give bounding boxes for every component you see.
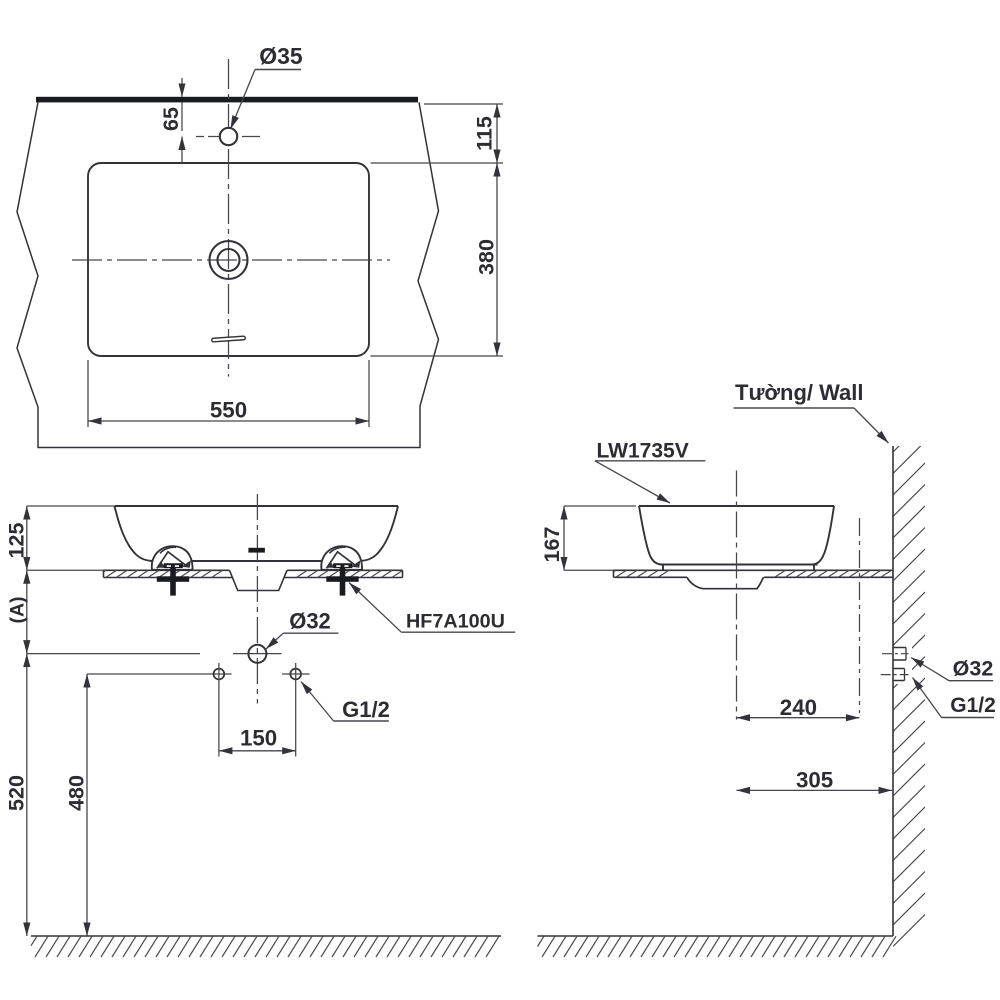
faucet hole circle (35mm) bbox=[220, 128, 237, 145]
svg-text:520: 520 bbox=[4, 775, 28, 811]
dimension (A) (left) bbox=[26, 570, 28, 653]
floor hatch left bbox=[31, 936, 499, 957]
front view: vertical centerline bbox=[256, 494, 258, 704]
svg-text:380: 380 bbox=[475, 239, 499, 275]
dimension 240 bbox=[737, 717, 860, 719]
svg-text:125: 125 bbox=[4, 523, 28, 559]
svg-text:167: 167 bbox=[540, 527, 564, 563]
front view: drain recess through counter bbox=[230, 570, 288, 590]
dimension 520 (left) bbox=[26, 654, 28, 936]
side view: counter hatch bbox=[614, 570, 892, 577]
svg-text:Tường/ Wall: Tường/ Wall bbox=[735, 380, 864, 405]
drain hole inner circle bbox=[218, 249, 240, 271]
svg-text:Ø35: Ø35 bbox=[259, 43, 303, 69]
svg-text:550: 550 bbox=[210, 398, 247, 423]
dimension 125 (left) bbox=[27, 505, 114, 507]
plan view: counter outline with break lines bbox=[17, 102, 439, 447]
plan view: basin rounded rectangle bbox=[88, 163, 369, 356]
right clamp fixture bbox=[321, 546, 362, 595]
supply hole left (G1/2) bbox=[214, 669, 225, 680]
floor hatch right bbox=[538, 936, 897, 957]
side view: wall edge line bbox=[892, 446, 894, 936]
dimension 150 bbox=[219, 750, 296, 752]
svg-text:G1/2: G1/2 bbox=[950, 694, 996, 717]
drain pipe circle O32 bbox=[248, 645, 266, 663]
left clamp fixture bbox=[152, 546, 193, 595]
front view: counter slab bbox=[104, 570, 403, 577]
svg-text:(A): (A) bbox=[6, 596, 28, 623]
front view: counter hatch strokes bbox=[104, 570, 402, 577]
svg-text:150: 150 bbox=[240, 726, 277, 751]
side view: basin bowl bbox=[639, 506, 834, 570]
side view: wall hatch bbox=[893, 420, 925, 947]
dimension 305 bbox=[737, 789, 893, 791]
plan view: vertical centerline bbox=[228, 59, 230, 377]
overflow slot bbox=[212, 336, 246, 342]
svg-text:65: 65 bbox=[159, 107, 183, 131]
svg-text:HF7A100U: HF7A100U bbox=[406, 611, 505, 633]
svg-text:LW1735V: LW1735V bbox=[597, 440, 689, 463]
plan view: horizontal centerline bbox=[72, 259, 390, 261]
dimension 380 (right) bbox=[371, 355, 504, 357]
supply hole right (G1/2) bbox=[290, 669, 301, 680]
svg-text:Ø32: Ø32 bbox=[289, 609, 331, 634]
svg-text:Ø32: Ø32 bbox=[953, 657, 994, 681]
dimension 480 bbox=[87, 673, 232, 675]
plan view: counter top thick edge bbox=[36, 97, 418, 103]
svg-text:G1/2: G1/2 bbox=[342, 697, 390, 722]
side view: counter slab bbox=[614, 570, 894, 577]
dimension 65 (top bar to faucet center) bbox=[181, 78, 183, 97]
front view: overflow slot (black) bbox=[248, 548, 265, 553]
svg-text:240: 240 bbox=[780, 695, 817, 720]
svg-text:115: 115 bbox=[473, 116, 497, 151]
svg-text:480: 480 bbox=[65, 775, 89, 811]
dimension 115 (right) bbox=[424, 103, 503, 105]
svg-text:305: 305 bbox=[796, 768, 833, 793]
plan view: faucet hole centerline cross bbox=[196, 136, 262, 138]
floor line left bbox=[31, 935, 501, 937]
wall pipes: O32 stub bbox=[893, 647, 906, 649]
floor line right bbox=[538, 935, 894, 937]
side view: drain boss under counter bbox=[687, 577, 764, 588]
front view: wash basin bowl outline bbox=[115, 506, 399, 561]
wall pipes: G1/2 stub bbox=[893, 668, 905, 670]
side view: 240 extension line bbox=[859, 518, 861, 713]
side view: centerline bbox=[736, 471, 738, 720]
drain hole outer circle bbox=[210, 241, 248, 279]
dimension 167 bbox=[564, 505, 636, 507]
drain height line (A) bbox=[27, 653, 200, 655]
dimension 550 (bottom) bbox=[87, 360, 89, 427]
